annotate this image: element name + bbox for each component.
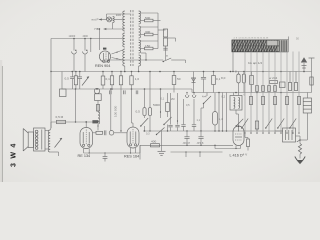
capacitor C3 0,5 (71, 72, 73, 77)
arrow up antenna (301, 57, 307, 62)
resistor row r1 (256, 86, 259, 92)
wire x1705 (170, 93, 172, 125)
wire B2 to output (306, 113, 308, 140)
wire to earth arrow (299, 154, 301, 158)
resistor R8 (111, 72, 113, 76)
resistor R24 wavy (298, 144, 301, 155)
wire tap 2 (141, 26, 159, 28)
cathode rail (84, 152, 140, 154)
transformer T1 left winding (124, 11, 126, 66)
wire stub x62 (61, 72, 63, 90)
earth arrow down (295, 157, 305, 164)
wire T3 feed (275, 130, 283, 132)
wire tap to R4 (158, 29, 166, 31)
wire left riser (50, 39, 52, 129)
capacitor C6 (203, 72, 205, 78)
wire to switch S1 (165, 51, 167, 61)
wire field coil link (45, 130, 48, 132)
wire V2 bottom leads (83, 149, 85, 154)
speaker field coil (34, 128, 46, 151)
tube V1 top cap (103, 48, 106, 50)
svg-text:0,1: 0,1 (106, 77, 111, 81)
capacitor C12 (104, 153, 106, 156)
terminal box K1 (60, 89, 67, 97)
wire x152 down (149, 72, 151, 108)
svg-text:JP1,8: JP1,8 (197, 141, 204, 145)
selector resistors (249, 97, 252, 105)
selector wires lower (244, 93, 246, 135)
wire ground bus top (51, 38, 125, 40)
svg-text:2M: 2M (171, 98, 174, 101)
tube V2 envelope (80, 128, 93, 149)
wire x755 riser (75, 89, 77, 122)
svg-text:400: 400 (151, 140, 156, 144)
capacitor C2 small (163, 47, 167, 49)
wire H1 left (104, 59, 163, 61)
resistor R21 (151, 144, 160, 147)
wire grid lead 1 (90, 39, 92, 53)
svg-text:bis api 1/4: bis api 1/4 (248, 61, 262, 65)
transformer T1 core (130, 10, 132, 66)
wire x187 down (183, 99, 185, 124)
capacitor C9 (186, 131, 188, 136)
svg-text:0,1: 0,1 (216, 77, 221, 81)
output box T3 (283, 128, 296, 142)
wire x1935 down (193, 99, 195, 124)
svg-text:8: 8 (235, 70, 237, 74)
grid resistor R26 (96, 131, 103, 134)
resistor R17 (289, 72, 291, 83)
wire V3 bottom leads (130, 148, 132, 153)
rectifier D1 (193, 76, 195, 84)
wire x1775 (177, 93, 179, 125)
svg-text:4 8 12 16 20 24 28 32 36 40: 4 8 12 16 20 24 28 32 36 40 44 48 (234, 38, 269, 40)
svg-text:0,3: 0,3 (146, 133, 150, 136)
svg-text:3 W 4: 3 W 4 (9, 142, 17, 167)
cathode circle V1 (94, 88, 99, 93)
rail wire H3 right (191, 89, 193, 93)
switch S5 (206, 93, 208, 97)
capacitor R11 oval (148, 108, 151, 116)
svg-text:0,5 M: 0,5 M (56, 115, 64, 119)
svg-text:REN 904: REN 904 (95, 64, 110, 68)
switch S4 (157, 128, 165, 135)
resistor R2 tap (141, 34, 145, 36)
svg-text:1,1: 1,1 (197, 119, 201, 122)
svg-text:0,2: 0,2 (222, 95, 226, 99)
choke L2 bumps (98, 112, 100, 124)
trimmer coil L1 (113, 16, 115, 22)
anode battery B1 (232, 40, 288, 52)
resistor R18 (295, 72, 297, 83)
junction dots H2 (72, 71, 74, 73)
wire V4 left rail (214, 145, 216, 148)
svg-text:RE 134: RE 134 (78, 154, 91, 158)
resistor row r2 (262, 86, 265, 92)
resistor row r4 (274, 86, 277, 92)
capacitor C5 pair (109, 90, 111, 94)
wire jack to T1 (114, 19, 124, 21)
phone jack J1 (107, 17, 112, 22)
selector bottom dots (244, 132, 245, 133)
potentiometer arrow P1 (82, 77, 89, 86)
svg-text:8,0: 8,0 (221, 76, 226, 80)
wire right output riser (296, 135, 301, 137)
svg-text:100 000: 100 000 (114, 106, 118, 117)
ground symbol (161, 131, 163, 151)
wire R5 down (165, 46, 167, 51)
svg-text:0,1: 0,1 (161, 98, 165, 101)
speaker output transformer winding (48, 130, 50, 152)
battery riser wires (244, 52, 246, 72)
choke box T2 (230, 96, 242, 111)
wire x248 drop (244, 134, 246, 138)
rail wire H7 (140, 144, 233, 146)
wire choke to V4 (235, 110, 237, 114)
svg-text:100: 100 (116, 13, 121, 17)
wire x193 down (193, 72, 195, 77)
wire x1605 down (160, 89, 162, 118)
wire tap riser right (157, 13, 159, 49)
resistor R7 small (96, 105, 99, 112)
svg-text:0,5: 0,5 (65, 77, 70, 81)
selector resistor R19 (255, 121, 258, 129)
svg-text:RES 164: RES 164 (124, 154, 139, 158)
svg-text:w 234: w 234 (269, 76, 278, 80)
wire x219 (218, 93, 220, 132)
svg-text:50: 50 (177, 77, 181, 81)
wire speaker bottom (50, 151, 58, 153)
switch S2 (141, 118, 148, 126)
svg-text:a: a (166, 54, 168, 58)
wire tap 3 (141, 40, 159, 42)
box K2 (280, 82, 286, 88)
wire V2 grid top (85, 122, 87, 128)
svg-text:ext P: ext P (92, 17, 99, 21)
tube V1 detector (99, 51, 110, 62)
wire x1675 down (167, 93, 169, 103)
heater U symbol 1 (186, 93, 188, 96)
grid chain wire (93, 132, 97, 134)
wire input top rail (107, 13, 131, 15)
wire x110 down (110, 89, 112, 131)
svg-text:L 416 D: L 416 D (230, 154, 243, 158)
wire H5 (51, 121, 98, 123)
wire x1435 (144, 89, 146, 108)
wire x121 down (120, 72, 122, 76)
resistor R4 wave trap (163, 29, 167, 37)
wire H7 left drop (139, 145, 141, 159)
capacitor C10 (200, 131, 202, 136)
svg-text:0,5: 0,5 (136, 110, 141, 114)
wire antenna input (99, 19, 107, 21)
wire x2225 (222, 93, 224, 132)
switch S3 (164, 117, 172, 125)
resistor row r3 (268, 86, 271, 92)
selector switches (242, 119, 248, 129)
resistor R1 tap (141, 20, 145, 22)
wire x2265 (226, 93, 228, 132)
resistor R25 (102, 72, 104, 77)
grid box G1 (95, 94, 102, 101)
wire x2585 drop (256, 129, 258, 131)
wire grid lead 2 (99, 29, 101, 50)
bias battery B2 (303, 98, 311, 113)
wire T1 right bottom (138, 66, 140, 72)
tube V4 electrodes (238, 126, 240, 132)
switch S1 (163, 58, 171, 62)
wire right edge (311, 58, 313, 93)
wire V3 rail to H7 (139, 145, 141, 153)
capacitor R10 oval (143, 108, 146, 116)
bus wire H6 (143, 130, 283, 132)
paper background (0, 0, 320, 182)
svg-text:4000: 4000 (83, 35, 89, 38)
resistor R14 (213, 72, 215, 76)
wire T1 left bottom (124, 66, 126, 72)
heater rail H8 (171, 151, 223, 153)
switch S6 (236, 119, 243, 126)
bus wire H2 (51, 71, 312, 73)
paper left edge shadow (0, 60, 2, 182)
grid chain wire 2 (114, 132, 127, 134)
rail wire H3 left (62, 88, 192, 90)
wire H1 right (171, 59, 185, 61)
wire tap 1 (141, 12, 159, 14)
resistor R27 dark (92, 120, 98, 123)
svg-text:5000: 5000 (153, 103, 160, 107)
resistor R22 (57, 120, 66, 123)
electrolytic C7 (238, 72, 240, 75)
resistor R23 (247, 139, 250, 147)
wire x103 down (97, 101, 99, 113)
resistor R16 horizontal (270, 81, 278, 84)
resistor R13 (173, 72, 175, 76)
junction dots H3 (75, 88, 77, 90)
tube V2 electrodes (82, 132, 84, 144)
resistor R6 (75, 72, 77, 76)
tube V3 envelope (127, 127, 139, 148)
svg-text:JPo47: JPo47 (183, 141, 191, 145)
wire plate to coil (112, 50, 124, 54)
electrolytic C8 (243, 72, 245, 75)
resistor R5 wave trap (163, 38, 167, 46)
heater U symbol 2 (193, 93, 195, 96)
wire x130 to tube (131, 89, 133, 123)
battery left stem (232, 52, 234, 72)
trimmer T-b (84, 39, 86, 51)
battery tick (288, 37, 290, 41)
svg-text:HB: HB (95, 27, 99, 31)
svg-text:0,5: 0,5 (186, 104, 190, 107)
wire HB input (104, 28, 125, 30)
svg-text:4×4: 4×4 (202, 95, 207, 99)
selector wires upper (244, 72, 246, 93)
svg-text:1,0: 1,0 (135, 77, 140, 81)
resistor R15 (251, 72, 253, 76)
grid capacitor C13 (103, 130, 105, 135)
resistor R12 (166, 103, 170, 112)
transformer T1 right winding (139, 11, 141, 24)
tube V3 electrodes (129, 132, 131, 144)
resistor R9 (131, 72, 133, 76)
pot arrow P2 (55, 138, 63, 148)
jack circle J2 (109, 131, 114, 136)
resistor R3 tap (141, 48, 145, 50)
wire x209 link (203, 104, 205, 109)
tube V4 envelope (233, 126, 244, 146)
trimmer T-a (73, 39, 75, 51)
capacitor C4 (79, 72, 81, 77)
speaker cone (23, 129, 28, 134)
resistor R20 (310, 77, 313, 85)
wire V4 bottom leads (235, 146, 237, 149)
wire R4 side (168, 37, 176, 39)
electrolytic C11 (214, 93, 216, 112)
svg-text:12000: 12000 (69, 35, 76, 38)
